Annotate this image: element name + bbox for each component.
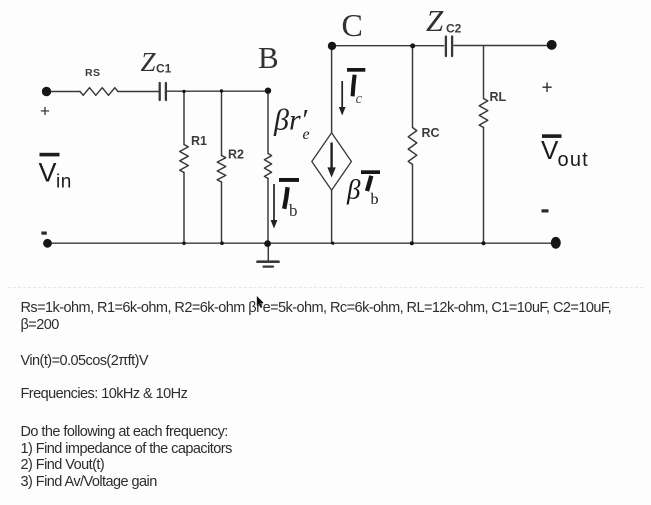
svg-text:c: c <box>356 91 363 107</box>
svg-text:V: V <box>541 135 559 165</box>
svg-text:B: B <box>258 40 279 75</box>
svg-text:β: β <box>346 175 361 205</box>
svg-text:out: out <box>558 149 589 171</box>
svg-text:+: + <box>40 102 50 121</box>
svg-text:b: b <box>371 191 379 208</box>
svg-text:RC: RC <box>422 126 440 140</box>
svg-text:in: in <box>56 172 72 193</box>
svg-text:RS: RS <box>85 67 100 79</box>
svg-text:Z: Z <box>141 47 157 77</box>
svg-text:b: b <box>289 201 298 220</box>
svg-text:+: + <box>542 78 553 99</box>
svg-text:Z: Z <box>426 3 444 38</box>
svg-text:V: V <box>39 158 57 188</box>
svg-text:C1: C1 <box>156 62 172 76</box>
svg-text:C: C <box>342 7 363 43</box>
svg-text:R1: R1 <box>191 134 207 148</box>
svg-text:R2: R2 <box>228 148 244 162</box>
svg-text:e: e <box>303 126 310 143</box>
svg-text:RL: RL <box>490 90 507 104</box>
svg-text:C2: C2 <box>446 22 462 36</box>
